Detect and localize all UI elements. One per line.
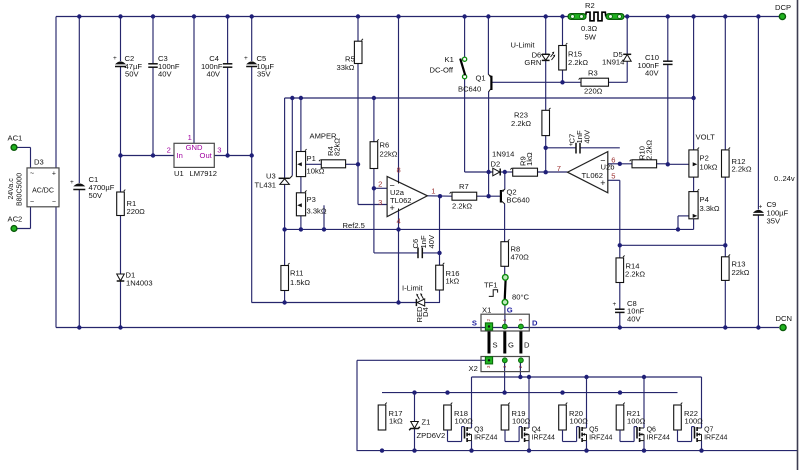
svg-text:1.5kΩ: 1.5kΩ — [290, 278, 310, 287]
svg-text:100Ω: 100Ω — [685, 417, 704, 426]
svg-text:1kΩ: 1kΩ — [446, 277, 460, 286]
svg-text:R3: R3 — [588, 69, 598, 78]
svg-text:−: − — [52, 199, 56, 206]
svg-text:Q5: Q5 — [589, 427, 598, 434]
svg-text:AC2: AC2 — [8, 215, 23, 224]
svg-text:1kΩ: 1kΩ — [525, 152, 534, 166]
svg-text:3.3kΩ: 3.3kΩ — [307, 207, 327, 216]
svg-text:+: + — [613, 301, 617, 308]
svg-text:2: 2 — [486, 319, 492, 322]
svg-text:40V: 40V — [206, 70, 220, 79]
svg-text:R7: R7 — [459, 182, 469, 191]
svg-text:D: D — [532, 319, 538, 328]
svg-text:2: 2 — [167, 146, 171, 155]
svg-text:2.2kΩ: 2.2kΩ — [625, 270, 645, 279]
svg-text:GND: GND — [186, 143, 203, 152]
svg-text:82kΩ: 82kΩ — [333, 138, 342, 156]
svg-text:D2: D2 — [491, 160, 501, 169]
svg-text:D3: D3 — [34, 158, 44, 167]
svg-text:S: S — [472, 319, 477, 328]
svg-text:BC640: BC640 — [507, 196, 530, 205]
svg-text:+: + — [52, 171, 56, 178]
svg-text:3: 3 — [486, 365, 492, 368]
svg-text:22kΩ: 22kΩ — [380, 150, 398, 159]
svg-text:4: 4 — [397, 216, 401, 225]
svg-text:Ref2.5: Ref2.5 — [343, 221, 365, 230]
svg-text:R2: R2 — [585, 1, 595, 10]
svg-text:RED: RED — [415, 306, 424, 323]
svg-text:DCP: DCP — [775, 3, 791, 12]
svg-text:P3: P3 — [307, 195, 316, 204]
svg-text:TL431: TL431 — [255, 181, 277, 190]
svg-text:10kΩ: 10kΩ — [700, 163, 718, 172]
svg-text:X2: X2 — [469, 364, 478, 373]
svg-text:+: + — [569, 142, 573, 149]
svg-text:B80C5000: B80C5000 — [17, 173, 24, 206]
svg-text:TL062: TL062 — [581, 171, 603, 180]
svg-text:TL062: TL062 — [390, 196, 412, 205]
svg-text:IRFZ44: IRFZ44 — [532, 434, 555, 441]
svg-text:1: 1 — [502, 365, 508, 368]
svg-text:35V: 35V — [257, 70, 271, 79]
svg-text:33kΩ: 33kΩ — [337, 63, 355, 72]
svg-text:7: 7 — [557, 164, 561, 173]
svg-text:GRN: GRN — [524, 58, 541, 67]
svg-text:1N914: 1N914 — [602, 58, 624, 67]
svg-text:3: 3 — [378, 198, 382, 207]
svg-text:6: 6 — [611, 156, 615, 165]
svg-text:220Ω: 220Ω — [584, 87, 603, 96]
svg-text:2.2kΩ: 2.2kΩ — [645, 140, 654, 160]
svg-text:G: G — [507, 306, 513, 315]
svg-text:1: 1 — [431, 186, 435, 195]
svg-text:24Va.c: 24Va.c — [8, 178, 15, 200]
svg-text:100Ω: 100Ω — [570, 417, 589, 426]
svg-text:+: + — [759, 204, 763, 211]
svg-text:VOLT: VOLT — [696, 133, 716, 142]
svg-text:8: 8 — [397, 165, 401, 174]
svg-text:2.2kΩ: 2.2kΩ — [452, 202, 472, 211]
svg-text:TF1: TF1 — [484, 281, 498, 290]
svg-text:80°C: 80°C — [512, 293, 529, 302]
svg-text:P1: P1 — [307, 154, 316, 163]
svg-text:1kΩ: 1kΩ — [389, 417, 403, 426]
svg-text:50V: 50V — [89, 191, 103, 200]
svg-text:+: + — [113, 55, 117, 62]
svg-text:3.3kΩ: 3.3kΩ — [700, 204, 720, 213]
svg-text:U3: U3 — [266, 172, 276, 181]
svg-text:DC-Off: DC-Off — [430, 66, 454, 75]
svg-text:DCN: DCN — [776, 314, 792, 323]
svg-text:IRFZ44: IRFZ44 — [589, 434, 612, 441]
svg-text:2.2kΩ: 2.2kΩ — [732, 165, 752, 174]
svg-text:~: ~ — [30, 199, 34, 206]
svg-text:50V: 50V — [125, 70, 139, 79]
svg-text:R6: R6 — [380, 141, 390, 150]
svg-text:1: 1 — [502, 319, 508, 322]
svg-text:40V: 40V — [645, 69, 659, 78]
svg-text:100Ω: 100Ω — [627, 417, 646, 426]
svg-text:X1: X1 — [482, 306, 491, 315]
svg-text:Q6: Q6 — [647, 427, 656, 434]
svg-text:S: S — [493, 341, 498, 350]
svg-text:BC640: BC640 — [458, 85, 481, 94]
svg-text:P2: P2 — [700, 154, 709, 163]
svg-text:40V: 40V — [627, 315, 641, 324]
svg-text:P4: P4 — [700, 195, 709, 204]
svg-text:R11: R11 — [290, 269, 303, 278]
svg-text:2: 2 — [378, 179, 382, 188]
svg-text:2.2kΩ: 2.2kΩ — [511, 119, 531, 128]
svg-text:I-Limit: I-Limit — [402, 284, 424, 293]
svg-text:40V: 40V — [427, 234, 436, 248]
svg-text:10kΩ: 10kΩ — [307, 167, 325, 176]
svg-text:470Ω: 470Ω — [511, 253, 530, 262]
svg-text:5: 5 — [611, 172, 615, 181]
svg-text:1: 1 — [188, 133, 192, 142]
svg-text:Q4: Q4 — [532, 427, 541, 434]
svg-text:220Ω: 220Ω — [127, 207, 146, 216]
svg-text:G: G — [508, 341, 514, 350]
svg-text:IRFZ44: IRFZ44 — [704, 434, 727, 441]
svg-text:2: 2 — [518, 365, 524, 368]
svg-text:100Ω: 100Ω — [512, 417, 531, 426]
svg-text:3: 3 — [518, 319, 524, 322]
svg-text:40V: 40V — [158, 70, 172, 79]
svg-text:2.2kΩ: 2.2kΩ — [568, 58, 588, 67]
svg-text:40V: 40V — [583, 129, 592, 143]
svg-text:ZPD6V2: ZPD6V2 — [417, 431, 446, 440]
svg-text:LM7912: LM7912 — [190, 169, 217, 178]
svg-text:22kΩ: 22kΩ — [732, 268, 750, 277]
svg-text:D: D — [524, 341, 530, 350]
svg-text:Q3: Q3 — [474, 427, 483, 434]
svg-text:Out: Out — [200, 151, 213, 160]
svg-text:U1: U1 — [174, 169, 184, 178]
svg-text:1N914: 1N914 — [492, 150, 514, 159]
svg-text:AC1: AC1 — [8, 134, 23, 143]
svg-text:Q7: Q7 — [704, 427, 713, 434]
svg-text:+: + — [244, 55, 248, 62]
svg-text:3: 3 — [217, 146, 221, 155]
svg-text:IRFZ44: IRFZ44 — [647, 434, 670, 441]
svg-text:In: In — [177, 151, 183, 160]
svg-text:+: + — [70, 179, 74, 186]
svg-text:AC/DC: AC/DC — [32, 188, 54, 195]
svg-text:IRFZ44: IRFZ44 — [474, 434, 497, 441]
svg-text:~: ~ — [30, 171, 34, 178]
svg-text:0..24v: 0..24v — [774, 174, 795, 183]
svg-text:K1: K1 — [445, 55, 454, 64]
svg-text:1N4003: 1N4003 — [126, 279, 153, 288]
svg-text:35V: 35V — [767, 217, 781, 226]
svg-text:100Ω: 100Ω — [455, 417, 474, 426]
svg-text:5W: 5W — [585, 33, 597, 42]
svg-text:Q1: Q1 — [476, 74, 486, 83]
svg-text:Z1: Z1 — [422, 418, 431, 427]
svg-text:U-Limit: U-Limit — [511, 41, 536, 50]
